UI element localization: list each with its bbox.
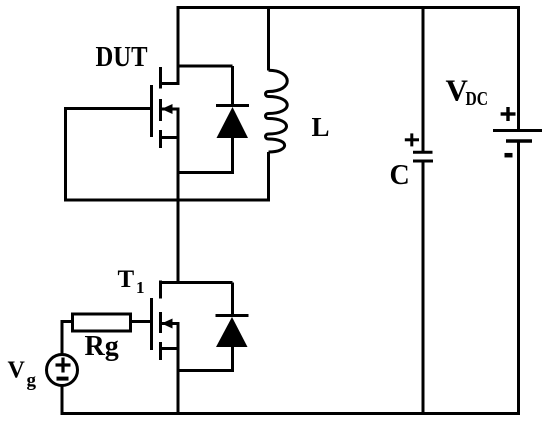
wire Vg bottom lead to bottom rail: [61, 386, 64, 416]
Vg minus sign: [57, 377, 69, 381]
wire gate loop left vertical: [64, 107, 67, 202]
battery plus sign: [501, 107, 516, 121]
svg-text:g: g: [27, 370, 37, 391]
diode D1 antiparallel with DUT: [216, 66, 249, 174]
diode D2 antiparallel with T1: [216, 283, 249, 373]
wire capacitor top lead from top rail: [422, 6, 425, 152]
wire top rail: [177, 6, 521, 9]
svg-text:T: T: [118, 266, 135, 293]
transistor T1 (MOSFET symbol): [152, 281, 180, 361]
wire midpoint column: DUT drain lead from top rail: [177, 6, 180, 85]
source Vg circle: [47, 355, 78, 386]
wire T1 source node to diode 2 bottom: [177, 369, 233, 372]
wire T1 source lead down to bottom rail: [177, 324, 180, 414]
svg-text:DC: DC: [466, 88, 489, 110]
label L: [312, 112, 330, 142]
label Vg: [8, 358, 37, 392]
label DUT: [96, 42, 148, 73]
wire battery top lead from top rail: [517, 6, 520, 131]
svg-text:C: C: [390, 160, 410, 191]
inductor L coil: [266, 70, 288, 152]
label Rg: [85, 331, 119, 362]
label C: [390, 160, 410, 191]
label V_DC: [446, 73, 489, 111]
wire bottom rail: [61, 412, 521, 415]
svg-text:DUT: DUT: [96, 42, 148, 73]
wire Rg right lead to T1 gate: [131, 320, 152, 323]
Vg plus sign: [56, 358, 71, 373]
wire battery bottom lead to bottom rail: [517, 141, 520, 415]
label T1: [118, 266, 145, 297]
wire gate loop bottom horizontal to inductor bottom: [64, 199, 269, 202]
wire midpoint column: DUT source down to T1 drain: [177, 109, 180, 284]
capacitor C plates: [413, 152, 433, 161]
wire DUT source node to diode bottom: [177, 171, 233, 174]
svg-text:L: L: [312, 112, 330, 142]
svg-text:V: V: [8, 358, 26, 384]
transistor DUT (MOSFET symbol): [152, 67, 180, 148]
svg-text:Rg: Rg: [85, 331, 119, 362]
svg-text:1: 1: [136, 278, 145, 297]
wire Rg left lead and down to Vg: [61, 320, 73, 355]
wire DUT gate lead: [64, 107, 152, 110]
battery minus sign: [505, 153, 513, 158]
wire inductor bottom lead down to gate loop line: [267, 152, 270, 202]
wire T1 drain to diode 2 top: [177, 281, 233, 284]
battery V_DC plates: [493, 131, 542, 142]
resistor Rg: [73, 314, 131, 331]
wire inductor top lead from top rail: [267, 6, 270, 71]
wire capacitor bottom lead to bottom rail: [422, 161, 425, 414]
capacitor plus sign: [405, 133, 419, 146]
wire DUT drain to diode top: [177, 65, 233, 68]
